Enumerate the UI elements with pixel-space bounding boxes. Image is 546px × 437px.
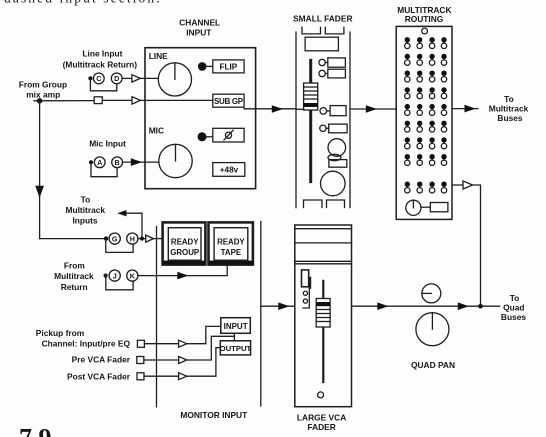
small fader knob [304,83,318,110]
svg-text:dashed input section.: dashed input section. [4,0,162,6]
svg-text:mix amp: mix amp [26,90,60,100]
svg-text:MIC: MIC [149,126,164,136]
button SUB GP [213,94,244,107]
routing switch row 4 [405,87,447,99]
svg-text:Multitrack: Multitrack [54,271,94,281]
routing switch row 2 [405,54,447,65]
label LINE [149,51,168,61]
top bracket right [325,27,344,34]
svg-text:C: C [96,74,101,83]
junction dot after H [140,237,144,241]
open arrow channel pickup [179,340,187,347]
vca bottom screw [318,392,324,398]
wire channel to small fader [244,108,296,110]
label Line Input (Multitrack Return) [63,49,138,70]
node B [112,157,123,168]
node C [93,73,104,84]
wire channel pickup to INPUT [144,326,220,343]
solid arrow vca out [377,302,388,310]
bottom bracket right [327,200,345,208]
switch pair 3 [320,106,346,116]
open arrow post vca [179,373,187,380]
wire to multitrack buses [452,108,478,110]
label From Group mix amp [19,79,67,99]
pickup square pre vca [137,357,144,364]
solid down arrowhead on vertical wire [35,186,44,198]
bottom bracket left [304,200,323,208]
wire H to ready group [138,238,162,240]
junction dot quad bus [478,304,483,309]
small fader big knob [321,171,346,196]
label QUAD PAN [411,360,455,370]
svg-text:READY: READY [217,238,245,247]
svg-text:Buses: Buses [497,113,522,123]
svg-text:Quad: Quad [503,303,524,313]
solid arrow to multitrack buses [465,105,476,113]
switch pair 4 [320,124,347,133]
wire down from group junction [39,101,41,239]
multitrack routing panel [396,26,452,219]
pickup square channel input [137,340,144,347]
panel knob at bottom [406,200,448,215]
label Post VCA Fader [67,372,131,382]
svg-text:7.9: 7.9 [19,424,52,437]
mic gain knob [159,144,192,177]
svg-text:TAPE: TAPE [221,248,241,257]
switch pair 1 [319,58,346,67]
svg-text:LINE: LINE [149,51,168,61]
flip indicator dot [198,62,213,71]
wire large vca to quad pan [352,305,500,307]
solid left arrowhead to multitrack inputs [117,210,126,216]
mic pickup dot [89,160,93,164]
svg-text:Multitrack: Multitrack [66,205,106,215]
solid arrow into large vca [278,302,289,310]
switch pair 2 [319,69,346,78]
label MIC [149,126,164,136]
svg-text:J: J [113,271,117,280]
label LARGE VCA FADER [297,412,346,432]
svg-text:Buses: Buses [501,312,526,322]
svg-text:READY: READY [171,238,199,247]
svg-text:From: From [64,261,85,271]
routing switch row 7 [405,137,447,149]
svg-text:INPUT: INPUT [224,322,248,331]
wire small fader internal [296,108,304,110]
large vca fader box [295,225,352,407]
svg-text:SUB GP: SUB GP [214,97,244,106]
svg-text:CHANNEL: CHANNEL [179,17,220,27]
label Mic Input [89,138,126,148]
svg-text:B: B [114,158,119,167]
wire to multitrack inputs [126,213,142,236]
panel screw hole [422,28,428,34]
solid arrow quad out [458,302,469,310]
button READY TAPE [209,222,253,264]
line input pickup dot [88,76,92,80]
svg-text:Pickup from: Pickup from [36,328,84,338]
button FLIP [213,60,244,73]
wire INPUT to OUTPUT [233,333,235,341]
svg-text:A: A [97,158,102,167]
wire D to line knob [122,77,158,79]
wire pre vca pickup [144,336,235,360]
svg-text:To: To [510,293,520,303]
svg-text:FLIP: FLIP [220,62,238,71]
svg-text:To: To [504,94,514,104]
wire post vca pickup [144,348,220,377]
node A [94,157,105,168]
label To Multitrack Buses [489,94,529,123]
box OUTPUT [220,341,252,355]
node H [127,233,138,244]
large fader track [322,281,324,382]
large fader knob [316,299,330,328]
box INPUT [221,318,251,334]
svg-text:Return: Return [61,282,88,292]
open arrow into ready group [146,235,154,242]
svg-text:Inputs: Inputs [72,216,97,226]
open arrow line input [132,75,140,82]
wire quad feed from routing panel [452,185,481,306]
small fader button rect [329,160,347,168]
label From Multitrack Return [54,261,94,292]
wire B to mic knob [123,161,159,163]
wire bracket under G H [106,240,133,253]
svg-text:K: K [130,271,136,280]
svg-text:(Multitrack Return): (Multitrack Return) [63,60,138,70]
svg-text:QUAD PAN: QUAD PAN [411,360,455,370]
svg-text:INPUT: INPUT [186,28,212,38]
wire bracket under A B [91,162,117,176]
button phase [213,128,244,142]
junction dot before G [104,236,108,240]
solid arrow into small fader [272,105,283,113]
label To Multitrack Inputs [66,194,106,225]
line gain knob [158,63,191,96]
label MULTITRACK ROUTING [397,5,451,24]
svg-text:Multitrack: Multitrack [489,104,529,114]
vca switch dot 1 [303,291,307,295]
vca switch dot 2 [303,299,307,303]
quad pan knob [416,313,449,346]
monitor section left boundary [156,227,158,407]
small fader strip left edge [295,32,297,208]
clipped caption text at top [4,0,162,6]
small fader strip right edge [349,32,351,208]
svg-text:To: To [81,194,91,204]
wire K to ready tape [138,265,227,275]
open arrow group feed [132,97,140,104]
open arrow pre vca [179,357,187,364]
wire bracket under J K [106,277,133,290]
label Pre VCA Fader [72,355,131,365]
svg-text:Channel: Input/pre EQ: Channel: Input/pre EQ [42,339,131,349]
svg-text:Post VCA Fader: Post VCA Fader [67,372,131,382]
pickup square post vca [137,373,144,380]
routing switch row 9 [405,182,447,194]
button +48v [213,163,245,177]
svg-text:G: G [112,234,118,243]
top bracket left [302,27,321,34]
svg-text:LARGE VCA: LARGE VCA [297,412,346,422]
solid arrow mic input [131,158,142,166]
svg-text:GROUP: GROUP [170,248,199,257]
routing switch row 3 [405,71,447,83]
wire bracket under C D [90,78,116,90]
svg-text:ROUTING: ROUTING [405,14,444,24]
wire across to node G [40,238,106,240]
svg-text:SMALL FADER: SMALL FADER [293,13,352,23]
svg-text:FADER: FADER [307,422,335,432]
svg-text:+48v: +48v [220,166,239,175]
routing switch row 1 [405,37,447,49]
wire small fader to multitrack routing [350,108,396,110]
routing switch row 5 [405,104,447,116]
node J [109,270,120,281]
routing switch row 6 [405,121,447,132]
svg-text:Pre VCA Fader: Pre VCA Fader [72,355,131,365]
svg-text:MONITOR INPUT: MONITOR INPUT [180,410,248,420]
routing switch row 8 [405,154,447,166]
svg-text:OUTPUT: OUTPUT [220,344,252,353]
label Pickup from Channel: Input/pre EQ [36,328,131,349]
channel input box U1 [145,48,256,189]
button READY GROUP [163,222,206,264]
vca box cap lines [295,229,352,264]
multitrack return pickup dot [104,274,108,278]
quad trim pot [422,284,441,303]
svg-text:Line Input: Line Input [82,49,122,59]
insert square on group wire [94,97,102,104]
monitor section right boundary [260,222,262,407]
node G [109,233,120,244]
label SMALL FADER [293,13,352,23]
solid arrow on ready tape wire [177,272,188,280]
figure number 7.9 clipped at bottom [19,424,52,437]
small fader top module rect [305,37,338,51]
svg-text:D: D [114,74,119,83]
node D [111,73,122,84]
wire from group to sub gp [34,99,213,101]
phase indicator dot [198,132,213,141]
node K [127,270,138,281]
label MONITOR INPUT [180,410,248,420]
small fader track [309,60,312,181]
small fader pan knob [328,139,346,161]
label CHANNEL INPUT [179,17,220,37]
vca switch [302,270,310,308]
wire monitor to large vca [261,305,295,307]
solid arrow into multitrack routing [366,105,377,113]
open arrow quad feed [463,181,473,189]
label To Quad Buses [501,293,526,322]
junction dot from group [37,98,42,103]
svg-text:Mic Input: Mic Input [89,138,126,148]
svg-text:H: H [130,234,135,243]
svg-text:From Group: From Group [19,79,67,89]
